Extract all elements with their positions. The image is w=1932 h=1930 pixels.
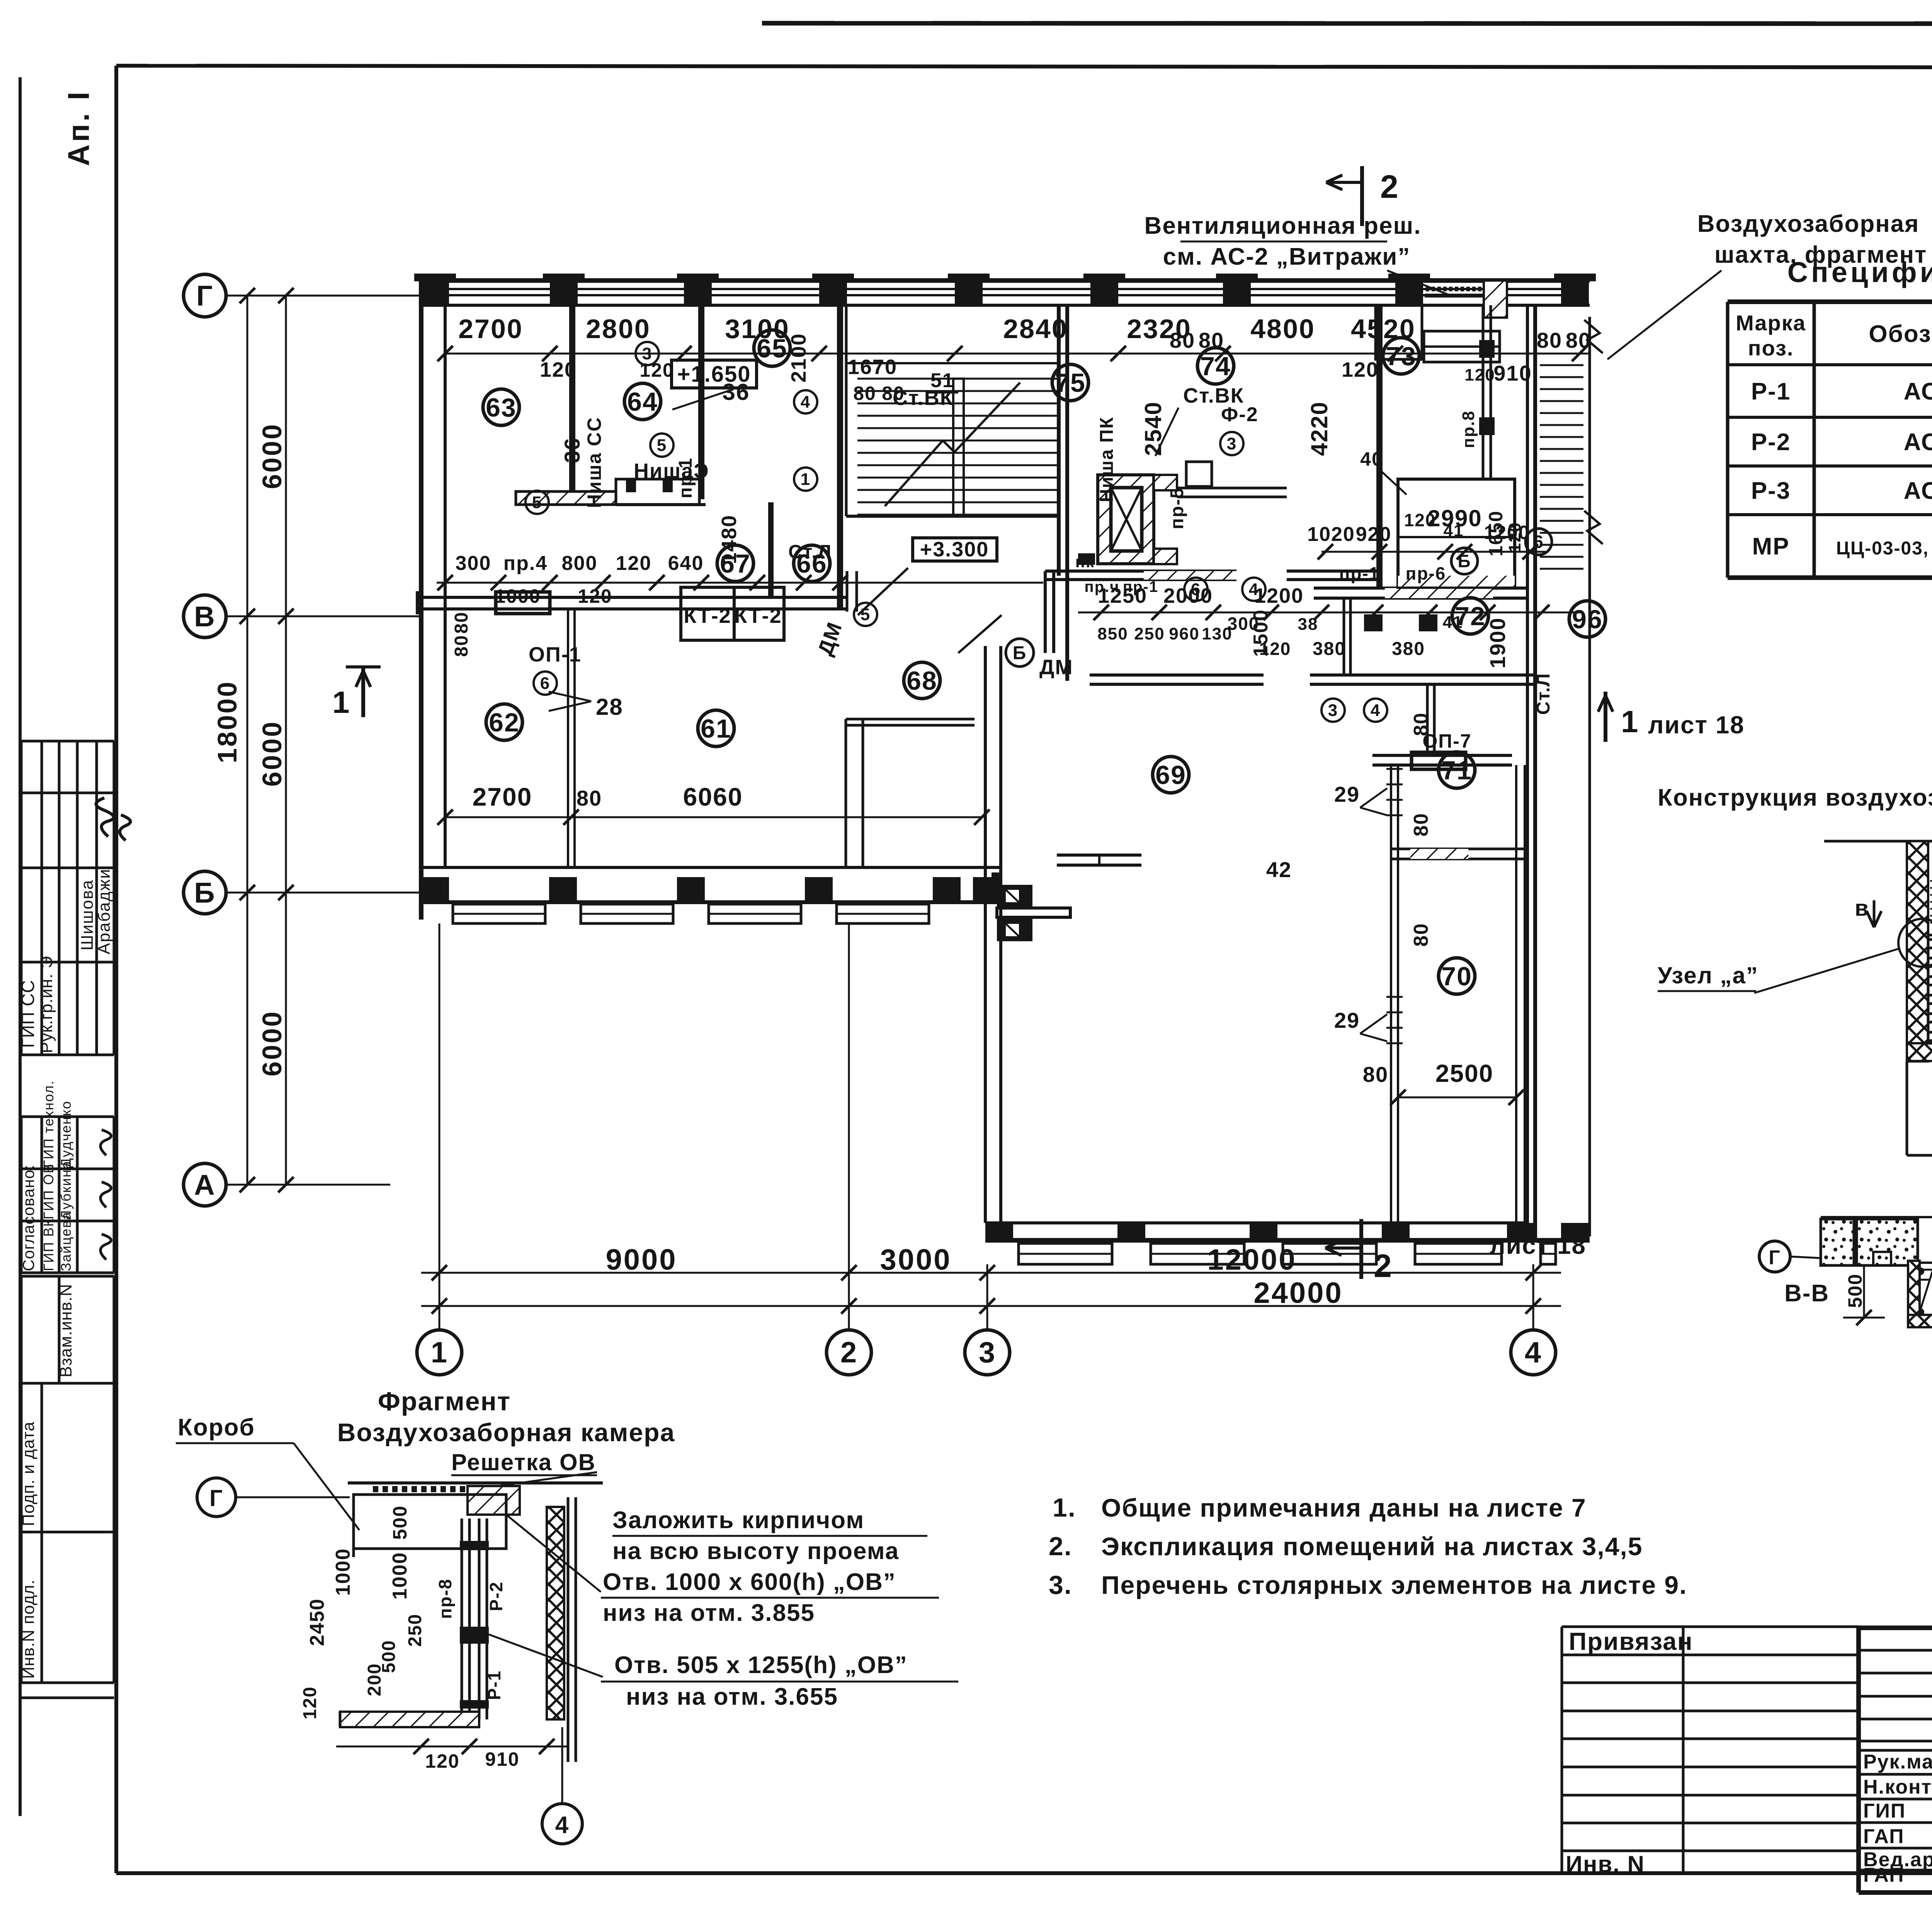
svg-text:120: 120	[1464, 366, 1495, 384]
svg-text:1200: 1200	[1254, 584, 1304, 607]
svg-text:ОП-1: ОП-1	[529, 643, 582, 666]
svg-text:пр-8: пр-8	[435, 1578, 455, 1619]
svg-text:500: 500	[1844, 1274, 1866, 1308]
svg-text:40: 40	[1360, 448, 1383, 470]
svg-text:1650: 1650	[1485, 510, 1507, 556]
svg-text:4: 4	[1525, 1336, 1542, 1369]
svg-text:38: 38	[1298, 615, 1318, 634]
svg-text:Ап. I: Ап. I	[61, 90, 95, 166]
svg-text:Инв. N: Инв. N	[1566, 1851, 1645, 1877]
svg-text:Рук.мас: Рук.мас	[1863, 1751, 1932, 1773]
svg-text:2: 2	[1380, 168, 1399, 205]
svg-text:Г: Г	[1769, 1246, 1781, 1269]
svg-text:120: 120	[300, 1686, 320, 1719]
svg-text:1000: 1000	[389, 1552, 411, 1600]
svg-text:1: 1	[431, 1336, 448, 1369]
svg-text:120: 120	[1505, 522, 1524, 553]
svg-text:Дудченко: Дудченко	[58, 1100, 74, 1168]
svg-text:Арабаджи: Арабаджи	[95, 868, 114, 954]
svg-text:3100: 3100	[725, 314, 790, 344]
svg-text:130: 130	[1202, 624, 1232, 643]
svg-text:Б: Б	[1013, 643, 1027, 663]
svg-text:Р-2: Р-2	[486, 1581, 506, 1611]
svg-text:4520: 4520	[1351, 314, 1416, 344]
svg-text:18000: 18000	[212, 680, 242, 763]
svg-text:Вентиляционная реш.: Вентиляционная реш.	[1145, 213, 1422, 239]
svg-text:Короб: Короб	[178, 1414, 255, 1441]
svg-text:74: 74	[1200, 352, 1231, 381]
svg-text:Зайцева: Зайцева	[58, 1211, 74, 1271]
svg-text:2: 2	[840, 1336, 857, 1369]
svg-text:6: 6	[1191, 580, 1201, 599]
svg-text:80: 80	[1537, 328, 1562, 352]
svg-text:Ниша СС: Ниша СС	[583, 417, 605, 508]
svg-text:640: 640	[668, 552, 704, 575]
svg-text:Р-1: Р-1	[484, 1670, 504, 1700]
svg-text:ЦЦ-03-03, альбом 71-64: ЦЦ-03-03, альбом 71-64	[1836, 538, 1932, 559]
svg-text:2800: 2800	[586, 314, 651, 344]
svg-text:120: 120	[425, 1750, 459, 1772]
svg-text:Взам.инв.N: Взам.инв.N	[56, 1284, 75, 1377]
svg-text:9000: 9000	[605, 1243, 677, 1276]
svg-text:поз.: поз.	[1748, 336, 1794, 360]
svg-text:Отв. 505 х 1255(h) „ОВ”: Отв. 505 х 1255(h) „ОВ”	[614, 1652, 908, 1678]
svg-text:АС1-43-: АС1-43-	[1904, 378, 1932, 405]
svg-text:Заложить кирпичом: Заложить кирпичом	[612, 1507, 864, 1534]
svg-text:61: 61	[701, 714, 731, 743]
svg-text:пр.ч: пр.ч	[1085, 578, 1120, 595]
svg-text:250: 250	[405, 1614, 425, 1647]
svg-text:ГАП: ГАП	[1863, 1825, 1904, 1848]
svg-text:Р-3: Р-3	[1751, 478, 1791, 504]
svg-text:960: 960	[1169, 624, 1199, 643]
svg-text:28: 28	[596, 694, 623, 720]
svg-text:на всю высоту проема: на всю высоту проема	[612, 1538, 899, 1564]
svg-text:71: 71	[1441, 756, 1472, 785]
svg-text:ГИП: ГИП	[1863, 1800, 1906, 1822]
svg-text:Обозначение: Обозначение	[1869, 321, 1932, 347]
svg-text:3: 3	[1227, 434, 1237, 453]
svg-text:300: 300	[456, 552, 492, 575]
svg-text:пр-5: пр-5	[1167, 487, 1187, 529]
svg-text:1480: 1480	[718, 515, 741, 564]
svg-text:1020: 1020	[1307, 523, 1355, 546]
svg-text:пр-6: пр-6	[1406, 563, 1446, 583]
svg-text:4: 4	[801, 393, 811, 412]
svg-text:3.: 3.	[1049, 1570, 1072, 1600]
svg-text:4220: 4220	[1306, 401, 1332, 456]
svg-text:Общие примечания даны на листе: Общие примечания даны на листе 7	[1101, 1493, 1587, 1522]
svg-text:2500: 2500	[1435, 1059, 1493, 1087]
svg-text:80: 80	[451, 612, 472, 634]
svg-text:Фрагмент: Фрагмент	[378, 1387, 511, 1416]
svg-text:120: 120	[578, 585, 612, 607]
svg-text:Ниша ПК: Ниша ПК	[1097, 417, 1117, 502]
svg-text:Воздухозаборная камера: Воздухозаборная камера	[337, 1418, 675, 1447]
svg-text:пр.1: пр.1	[675, 457, 696, 498]
svg-text:ГАП: ГАП	[1863, 1864, 1904, 1886]
svg-text:ДМ: ДМ	[1039, 656, 1073, 679]
svg-text:6000: 6000	[257, 423, 287, 489]
svg-text:4800: 4800	[1250, 314, 1315, 344]
svg-text:2: 2	[1374, 1248, 1393, 1284]
svg-text:Рук.гр.ин. Э: Рук.гр.ин. Э	[37, 956, 56, 1053]
svg-text:Узел „а”: Узел „а”	[1658, 962, 1759, 988]
svg-text:2450: 2450	[306, 1598, 328, 1646]
svg-text:6000: 6000	[257, 720, 287, 787]
svg-text:29: 29	[1334, 1008, 1360, 1032]
svg-text:Шишова: Шишова	[78, 879, 97, 951]
svg-text:НишаЭ: НишаЭ	[634, 459, 709, 483]
svg-text:6060: 6060	[683, 782, 743, 811]
svg-text:пр.8: пр.8	[1459, 410, 1478, 448]
svg-text:1000: 1000	[495, 585, 541, 607]
svg-text:96: 96	[1572, 605, 1603, 634]
svg-text:3: 3	[642, 344, 652, 363]
svg-text:1670: 1670	[848, 355, 897, 379]
svg-text:12000: 12000	[1207, 1243, 1296, 1276]
svg-text:120: 120	[616, 552, 652, 575]
svg-text:3: 3	[1328, 701, 1338, 720]
svg-text:380: 380	[1313, 639, 1346, 659]
svg-text:2700: 2700	[473, 782, 532, 811]
svg-text:Лубкина: Лубкина	[58, 1160, 74, 1219]
svg-text:80: 80	[853, 383, 876, 404]
svg-text:5: 5	[532, 493, 542, 512]
svg-text:Согласовано:: Согласовано:	[19, 1165, 37, 1271]
svg-text:850: 850	[1097, 624, 1128, 643]
svg-text:Б: Б	[194, 877, 215, 909]
svg-text:Ст.Л: Ст.Л	[788, 541, 832, 563]
svg-text:64: 64	[627, 387, 658, 417]
svg-text:АС1-43-: АС1-43-	[1904, 478, 1932, 504]
svg-text:4: 4	[1249, 580, 1259, 599]
svg-text:Перечень столярных элементов н: Перечень столярных элементов на листе 9.	[1101, 1571, 1687, 1599]
svg-text:80: 80	[1410, 813, 1432, 837]
svg-text:5: 5	[657, 436, 667, 455]
svg-text:пр-1: пр-1	[1123, 578, 1158, 595]
svg-text:80: 80	[451, 635, 472, 657]
svg-text:пр-1: пр-1	[1339, 563, 1380, 583]
svg-text:41: 41	[1443, 613, 1463, 632]
svg-text:910: 910	[485, 1748, 519, 1770]
svg-text:500: 500	[389, 1505, 411, 1540]
svg-text:Подп. и дата: Подп. и дата	[19, 1422, 38, 1526]
svg-text:Воздухозаборная: Воздухозаборная	[1697, 211, 1920, 237]
svg-text:1500: 1500	[1250, 609, 1272, 657]
svg-text:42: 42	[1266, 857, 1292, 882]
svg-text:1.: 1.	[1053, 1493, 1076, 1522]
svg-text:80: 80	[1566, 328, 1591, 352]
svg-text:низ на отм. 3.855: низ на отм. 3.855	[603, 1600, 815, 1626]
svg-text:Инв.N подл.: Инв.N подл.	[19, 1580, 38, 1679]
svg-text:Н.контр.: Н.контр.	[1863, 1776, 1932, 1798]
svg-text:Г: Г	[196, 280, 213, 312]
svg-text:Р-1: Р-1	[1751, 378, 1791, 405]
svg-text:75: 75	[1055, 368, 1086, 398]
svg-text:ГИП ВК: ГИП ВК	[41, 1218, 56, 1271]
svg-text:1: 1	[332, 685, 350, 719]
svg-text:120: 120	[1404, 510, 1436, 530]
svg-text:380: 380	[1392, 639, 1425, 659]
svg-text:Привязан: Привязан	[1569, 1627, 1693, 1655]
svg-text:250: 250	[1134, 624, 1165, 643]
svg-text:6000: 6000	[257, 1010, 287, 1076]
svg-text:2840: 2840	[1003, 314, 1068, 344]
svg-text:В-В: В-В	[1784, 1280, 1829, 1307]
svg-text:Отв. 1000 х 600(h) „ОВ”: Отв. 1000 х 600(h) „ОВ”	[603, 1569, 896, 1595]
svg-text:Конструкция воздухозаборного: Конструкция воздухозаборного короба	[1658, 784, 1932, 811]
svg-text:120: 120	[1342, 358, 1379, 381]
svg-text:2.: 2.	[1049, 1532, 1072, 1561]
svg-text:Ст.Л: Ст.Л	[1533, 673, 1554, 715]
svg-text:МР: МР	[1752, 533, 1790, 560]
svg-text:2540: 2540	[1140, 401, 1166, 456]
svg-text:36: 36	[560, 437, 584, 463]
svg-text:29: 29	[1334, 782, 1360, 806]
svg-text:51: 51	[930, 369, 954, 392]
svg-text:ОП-7: ОП-7	[1422, 730, 1471, 752]
svg-text:80: 80	[1199, 328, 1224, 352]
svg-text:В: В	[194, 600, 215, 633]
svg-text:69: 69	[1155, 760, 1186, 790]
svg-text:3000: 3000	[880, 1243, 951, 1276]
svg-text:Ст.ВК: Ст.ВК	[1183, 384, 1244, 407]
svg-text:800: 800	[562, 552, 598, 575]
svg-text:см. АС-2 „Витражи”: см. АС-2 „Витражи”	[1163, 243, 1411, 270]
svg-text:120: 120	[540, 358, 577, 381]
svg-text:6: 6	[540, 674, 550, 693]
svg-text:А: А	[194, 1169, 215, 1201]
svg-text:4: 4	[1371, 701, 1381, 720]
svg-text:3: 3	[979, 1336, 996, 1369]
svg-text:62: 62	[489, 708, 520, 737]
svg-text:ГИП ОВ: ГИП ОВ	[41, 1163, 56, 1219]
svg-text:2100: 2100	[787, 333, 810, 383]
svg-text:лист 18: лист 18	[1490, 1231, 1586, 1259]
svg-text:в: в	[1855, 896, 1869, 921]
svg-text:80: 80	[577, 786, 602, 810]
svg-text:+3.300: +3.300	[920, 538, 989, 561]
svg-text:лист 18: лист 18	[1648, 711, 1745, 739]
svg-text:1: 1	[801, 470, 811, 489]
svg-text:1: 1	[1621, 704, 1639, 739]
svg-text:Р-2: Р-2	[1751, 429, 1791, 456]
svg-text:КТ-2: КТ-2	[684, 604, 731, 627]
svg-text:70: 70	[1441, 962, 1472, 991]
svg-text:Марка: Марка	[1736, 311, 1806, 335]
svg-text:ГИП СС: ГИП СС	[18, 980, 38, 1048]
svg-text:ГИП технол.: ГИП технол.	[41, 1080, 56, 1168]
svg-text:80: 80	[1363, 1062, 1388, 1087]
svg-text:Решетка ОВ: Решетка ОВ	[451, 1449, 596, 1475]
svg-text:1000: 1000	[332, 1548, 354, 1596]
svg-text:2700: 2700	[458, 314, 523, 344]
svg-text:80: 80	[1170, 328, 1195, 352]
svg-text:Б: Б	[1458, 551, 1471, 571]
svg-text:200: 200	[364, 1663, 385, 1696]
svg-text:63: 63	[486, 393, 517, 422]
svg-text:КТ-2: КТ-2	[734, 604, 782, 627]
svg-text:4: 4	[555, 1812, 569, 1838]
svg-text:68: 68	[906, 666, 937, 695]
svg-text:Спецификация: Спецификация	[1787, 256, 1932, 288]
svg-text:6: 6	[1533, 532, 1544, 552]
svg-text:80: 80	[1410, 923, 1432, 947]
svg-text:низ на отм. 3.655: низ на отм. 3.655	[626, 1683, 838, 1710]
svg-text:920: 920	[1356, 523, 1392, 546]
svg-text:24000: 24000	[1253, 1277, 1343, 1309]
svg-text:1900: 1900	[1485, 617, 1510, 668]
svg-text:пр.4: пр.4	[503, 552, 548, 575]
svg-text:АС1-43-: АС1-43-	[1904, 429, 1932, 456]
svg-text:5: 5	[861, 605, 871, 624]
svg-text:Г: Г	[209, 1485, 223, 1511]
svg-text:910: 910	[1493, 361, 1532, 385]
svg-text:Экспликация помещений на листа: Экспликация помещений на листах 3,4,5	[1101, 1532, 1643, 1561]
